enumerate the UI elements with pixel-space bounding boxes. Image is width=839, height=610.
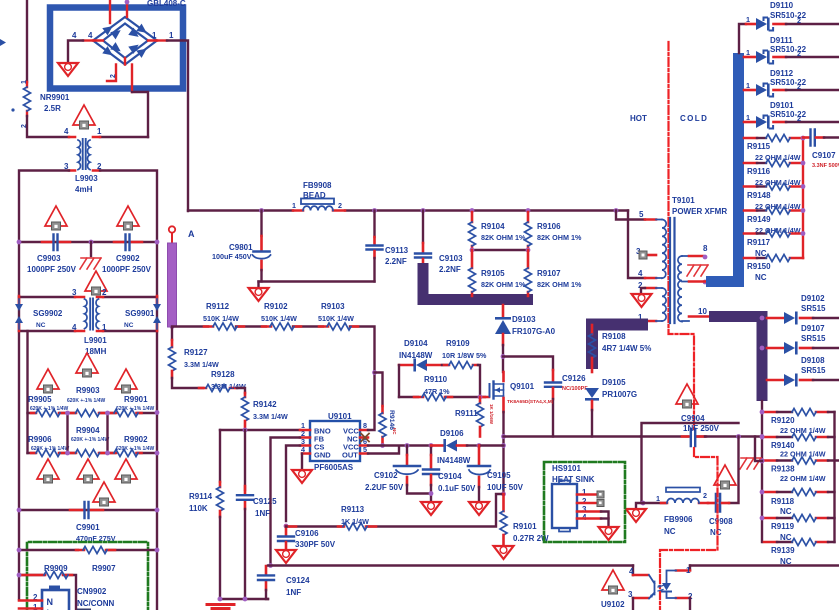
svg-text:C9902: C9902: [116, 254, 140, 263]
wire L9901 top row: [19, 296, 157, 298]
bridge bottom pin wires: [107, 65, 116, 82]
gate drive: D9104 row: [399, 339, 448, 372]
svg-text:SG9902: SG9902: [33, 309, 63, 318]
wire R9109 to gate node: [478, 365, 480, 397]
chassis at rail: [740, 458, 761, 469]
resistor R9105: [469, 250, 526, 296]
safety triangle lower right: [115, 459, 137, 483]
safety triangle above L9903: [73, 105, 95, 129]
svg-text:10R 1/8W 5%: 10R 1/8W 5%: [442, 351, 487, 360]
pin 10 lead: [689, 315, 709, 318]
junction at 528,250: [526, 248, 531, 253]
svg-text:1K 1/16W: 1K 1/16W: [489, 404, 494, 425]
junction at 503.5,436.5: [501, 434, 506, 439]
svg-text:IN4148W: IN4148W: [437, 456, 471, 465]
snubber bank R9117: [744, 230, 803, 258]
svg-text:1NF: 1NF: [286, 588, 301, 597]
svg-text:R9119: R9119: [771, 522, 795, 531]
svg-text:R9118: R9118: [771, 497, 795, 506]
svg-text:C9124: C9124: [286, 576, 310, 585]
resistor R9104: [469, 208, 526, 250]
bridge diode SE inner: [128, 41, 141, 54]
T9101 primary: [636, 210, 689, 323]
wire AC input left vertical: [26, 0, 28, 82]
svg-text:620K +-1% 1/4W: 620K +-1% 1/4W: [71, 437, 109, 443]
NC cross on pin 6: [361, 434, 369, 442]
junction dot A bar bottom: [170, 324, 175, 329]
svg-text:R9108: R9108: [602, 332, 626, 341]
svg-text:1: 1: [21, 80, 28, 84]
svg-text:R9907: R9907: [92, 564, 116, 573]
svg-text:SR510-22: SR510-22: [770, 78, 807, 87]
svg-text:R9127: R9127: [184, 348, 208, 357]
svg-text:82K OHM 1%: 82K OHM 1%: [481, 233, 526, 242]
bridge pin 4 lead: [83, 39, 93, 41]
wire L9903 pin1 row: [100, 136, 148, 138]
svg-text:HOT: HOT: [630, 114, 647, 123]
svg-text:COLD: COLD: [680, 114, 708, 123]
capacitor C9801 electrolytic: [212, 208, 271, 281]
primary winding lower: [662, 288, 666, 321]
capacitor C9107: [803, 130, 839, 170]
svg-text:C9903: C9903: [37, 254, 61, 263]
svg-text:R9104: R9104: [481, 222, 505, 231]
diode D9111: [744, 36, 839, 64]
wire left rail from L9903 pin3: [19, 171, 69, 600]
svg-text:1: 1: [656, 494, 660, 503]
primary winding upper: [656, 220, 662, 322]
svg-text:1: 1: [152, 31, 157, 40]
right rail lower bank: [833, 412, 835, 542]
junction at 261.5,210.5: [259, 208, 264, 213]
snubber bank right rail: [802, 138, 804, 258]
svg-text:HS9101: HS9101: [552, 464, 581, 473]
capacitor C9903: [27, 235, 77, 275]
svg-text:PF6005AS: PF6005AS: [314, 463, 354, 472]
safety triangle above C9902: [117, 206, 139, 230]
svg-text:SG9901: SG9901: [125, 309, 155, 318]
wire 620K row2: [28, 452, 158, 454]
svg-text:C9908: C9908: [709, 517, 733, 526]
isolation dash-dot lower: [660, 448, 718, 610]
svg-text:C9126: C9126: [562, 374, 586, 383]
svg-text:82K OHM 1%: 82K OHM 1%: [537, 233, 582, 242]
safety triangle above L9901: [85, 271, 107, 295]
svg-text:R9103: R9103: [321, 302, 345, 311]
chassis drop wire: [755, 437, 762, 462]
junction at 67.5,453: [65, 451, 70, 456]
svg-text:4: 4: [629, 567, 634, 576]
svg-text:C9801: C9801: [229, 243, 253, 252]
svg-text:R9138: R9138: [771, 465, 795, 474]
junction at 374.5,210.5: [372, 208, 377, 213]
svg-text:82K OHM 1%: 82K OHM 1%: [537, 280, 582, 289]
svg-text:R9139: R9139: [771, 546, 795, 555]
wire BNO row: [220, 429, 300, 431]
junction at 423,210.5: [421, 208, 426, 213]
green boundary box CN9902: [27, 542, 148, 610]
pin wires CN9902: [19, 599, 42, 602]
svg-text:2: 2: [110, 74, 117, 78]
capacitor C9106: [278, 526, 336, 549]
junction at 503.5,445.5: [501, 443, 506, 448]
capacitor C9124: [258, 566, 310, 599]
svg-text:620K +-1% 1/4W: 620K +-1% 1/4W: [31, 446, 69, 452]
svg-text:R9110: R9110: [424, 375, 448, 384]
bridge diode NW inner: [110, 26, 123, 39]
junction at 157,510: [155, 508, 160, 513]
junction at 374.5,372.5: [372, 370, 377, 375]
diode D9102: [767, 294, 839, 325]
safety triangle left: [37, 369, 59, 393]
junction dot Y-cap row left: [17, 240, 22, 245]
svg-text:NC/CONN: NC/CONN: [77, 599, 115, 608]
svg-text:D9108: D9108: [801, 356, 825, 365]
svg-text:OUT: OUT: [342, 451, 358, 460]
svg-text:D9105: D9105: [602, 378, 626, 387]
resistor R9902: [114, 450, 138, 457]
svg-text:NC: NC: [755, 249, 767, 258]
wire R9907 row: [19, 549, 157, 551]
junction at 762,318: [760, 316, 765, 321]
safety triangle lower mid: [77, 459, 99, 483]
svg-text:4: 4: [88, 31, 93, 40]
svg-text:8: 8: [703, 244, 708, 253]
svg-text:R9909: R9909: [44, 564, 68, 573]
junction at 762,348: [760, 346, 765, 351]
svg-text:R9117: R9117: [747, 238, 771, 247]
svg-text:A: A: [188, 229, 195, 239]
bridge pin 1 lead: [157, 39, 167, 41]
node A terminal ring: [169, 226, 175, 232]
svg-text:R9116: R9116: [747, 167, 771, 176]
bridge diamond inner: [103, 24, 148, 59]
snubber bank R9150: [744, 255, 803, 283]
svg-text:3.3M 1/4W: 3.3M 1/4W: [211, 382, 246, 391]
svg-text:4: 4: [72, 323, 77, 332]
junction at 705,282: [703, 280, 708, 285]
diode D9108: [767, 356, 839, 387]
svg-text:SR515: SR515: [801, 334, 826, 343]
resistor R9110: [422, 394, 446, 401]
diode D9112: [744, 69, 839, 97]
svg-text:1NF 250V: 1NF 250V: [683, 424, 720, 433]
snubber bank R9148: [744, 183, 803, 211]
pin4 GND wire + ground: [301, 454, 303, 469]
resistor R9108 over bar: [589, 325, 652, 372]
rail purple bar to R bank: [761, 401, 763, 412]
svg-text:SR515: SR515: [801, 304, 826, 313]
resistor R9907: [83, 547, 107, 554]
svg-text:2.2NF: 2.2NF: [385, 257, 407, 266]
svg-text:C9107: C9107: [812, 151, 836, 160]
junction at 431,493.5: [429, 491, 434, 496]
svg-text:8: 8: [363, 421, 367, 430]
resistor R9128: [206, 385, 230, 392]
Y-cap net wire: [641, 435, 705, 437]
svg-text:NC: NC: [780, 533, 792, 542]
junction at 19,575: [17, 573, 22, 578]
svg-text:NC: NC: [36, 322, 46, 329]
svg-text:1: 1: [169, 31, 174, 40]
chassis at secondary: [687, 265, 708, 276]
resistor R9114: [217, 487, 224, 511]
svg-text:R9150: R9150: [747, 262, 771, 271]
junction at 643,503: [641, 501, 646, 506]
C9908 right riser: [729, 437, 739, 504]
svg-text:620K +-1% 1/4W: 620K +-1% 1/4W: [67, 398, 105, 404]
svg-text:1: 1: [746, 113, 750, 122]
ground below C9104: [421, 502, 441, 515]
svg-text:Q9101: Q9101: [510, 382, 535, 391]
svg-text:NC: NC: [780, 507, 792, 516]
svg-text:1: 1: [292, 201, 296, 210]
resistor R9107: [525, 250, 582, 296]
svg-text:R9113: R9113: [341, 505, 365, 514]
svg-text:C9125: C9125: [253, 497, 277, 506]
capacitor C9126: [545, 370, 588, 437]
wire D9104 left vertical: [398, 365, 400, 397]
diode D9103: [495, 305, 556, 345]
wire A bar to R9127: [171, 327, 173, 340]
bridge diode SW inner: [110, 42, 123, 55]
diode D9105: [585, 378, 637, 437]
svg-text:C9106: C9106: [295, 529, 319, 538]
ground: [626, 509, 646, 522]
safety triangle lower left: [37, 459, 59, 483]
bridge diode NE inner: [128, 28, 141, 41]
svg-text:3.3M 1/4W: 3.3M 1/4W: [253, 412, 288, 421]
common mode choke L9903: [64, 127, 102, 194]
svg-text:2.5R: 2.5R: [44, 104, 61, 113]
wire L9901 bottom row: [19, 330, 157, 332]
junction at 107.5,453: [105, 451, 110, 456]
ground below R9101: [494, 546, 514, 559]
resistor R9127 vertical: [169, 347, 176, 371]
junction at 762,461: [760, 459, 765, 464]
resistor R9119: [764, 515, 835, 543]
ground heat sink: [599, 527, 619, 540]
svg-text:D9107: D9107: [801, 324, 825, 333]
HV bus wire: [188, 209, 628, 211]
svg-text:2: 2: [797, 82, 801, 91]
ground left of FB9906: [636, 503, 643, 508]
wire bus corner to pin4: [628, 211, 645, 279]
svg-text:510K 1/4W: 510K 1/4W: [203, 314, 239, 323]
secondary winding: [678, 256, 682, 322]
VCC/OUT net: [368, 446, 431, 454]
svg-text:4: 4: [638, 269, 643, 278]
resistor R9901: [114, 410, 138, 417]
wire Y-cap row: [19, 241, 157, 243]
R9113 row: [286, 494, 504, 530]
svg-text:D9106: D9106: [440, 429, 464, 438]
capacitor C9104: [423, 443, 476, 501]
capacitor C9901: [70, 502, 116, 543]
wire bridge pin1 to right vertical: [167, 41, 188, 212]
svg-text:2: 2: [797, 49, 801, 58]
bridge diode NW: [102, 22, 115, 35]
svg-text:C9901: C9901: [76, 523, 100, 532]
safety triangle above C9904: [676, 384, 698, 408]
resistor R9138: [764, 457, 839, 483]
junction at 220,599: [218, 597, 223, 602]
capacitor C9902: [102, 235, 152, 275]
svg-text:1000PF 250V: 1000PF 250V: [27, 265, 77, 274]
svg-text:D9111: D9111: [770, 36, 793, 45]
pin 8 lead: [689, 255, 703, 258]
svg-text:1: 1: [746, 48, 750, 57]
svg-text:C9103: C9103: [439, 254, 463, 263]
bottom rail left: [219, 598, 268, 600]
spark gap SG9902: [15, 296, 63, 331]
junction at 738.5,436.5: [736, 434, 741, 439]
svg-text:FR107G-A0: FR107G-A0: [512, 327, 556, 336]
svg-text:1: 1: [102, 323, 107, 332]
svg-text:C9104: C9104: [438, 472, 462, 481]
junction at 762,460.5: [760, 458, 765, 463]
svg-text:4mH: 4mH: [75, 185, 93, 194]
wire 510K row: [172, 327, 375, 373]
junction at 528,210.5: [526, 208, 531, 213]
safety triangle row mid upper: [76, 353, 98, 377]
svg-text:4: 4: [64, 127, 69, 136]
secondary mid tap lead: [689, 280, 706, 283]
resistor NR9901: [21, 80, 70, 128]
svg-text:1K 1/4W: 1K 1/4W: [341, 517, 369, 526]
svg-text:R9128: R9128: [211, 370, 235, 379]
stub to chassis: [90, 242, 92, 256]
U9102 pin wires down: [633, 598, 690, 610]
capacitor C9904: [681, 414, 720, 446]
junction at 803,163: [801, 161, 806, 166]
svg-text:510K 1/4W: 510K 1/4W: [318, 314, 354, 323]
svg-text:T9101: T9101: [672, 196, 695, 205]
thick blue bar secondary top: [706, 53, 739, 282]
svg-text:620K +-1% 1/4W: 620K +-1% 1/4W: [116, 406, 154, 412]
common mode choke L9901: [72, 288, 107, 356]
junction dot Y-cap row right: [155, 240, 160, 245]
ground below C9106: [276, 550, 296, 563]
CS pin3 wire: [286, 446, 300, 522]
junction at 503.5,494: [501, 492, 506, 497]
pin8 VCC wire up: [368, 373, 375, 431]
diode D9110: [746, 1, 839, 31]
svg-text:2.2NF: 2.2NF: [439, 265, 461, 274]
ground at bridge: [58, 63, 78, 76]
junction at 245,430: [243, 428, 248, 433]
svg-text:C9113: C9113: [385, 246, 409, 255]
wire R9104-R9105 mid row: [472, 249, 528, 251]
R9110 row wire: [399, 396, 485, 398]
core bars: [670, 218, 675, 323]
diode D9107: [767, 324, 839, 355]
svg-text:22 OHM 1/4W: 22 OHM 1/4W: [755, 153, 801, 162]
resistor R9903: [76, 410, 100, 417]
svg-text:NC: NC: [664, 527, 676, 536]
wire C9901 row: [19, 509, 157, 511]
svg-text:PR1007G: PR1007G: [602, 390, 637, 399]
junction at 382.5,445.5: [380, 443, 385, 448]
wire R9909 row: [19, 575, 76, 610]
wire D9103 to Q9101 drain: [502, 345, 504, 372]
svg-text:4R7 1/4W 5%: 4R7 1/4W 5%: [602, 344, 651, 353]
junction at 762,437: [760, 435, 765, 440]
svg-text:82K OHM 1%: 82K OHM 1%: [481, 280, 526, 289]
svg-text:NC: NC: [392, 428, 397, 435]
FB pin2 wire: [271, 438, 301, 566]
svg-text:R9102: R9102: [264, 302, 288, 311]
resistor R9109: [442, 339, 487, 369]
svg-text:SR510-22: SR510-22: [770, 110, 807, 119]
svg-text:R9101: R9101: [513, 522, 537, 531]
safety triangle at U9102: [602, 570, 624, 594]
svg-text:GND: GND: [314, 451, 331, 460]
svg-text:5: 5: [639, 210, 644, 219]
pin3 stub + NC square: [646, 254, 656, 257]
wire bus to pin5: [614, 208, 619, 213]
svg-text:1NF: 1NF: [255, 509, 270, 518]
svg-text:L9903: L9903: [75, 174, 98, 183]
thick purple bar secondary lower: [709, 317, 762, 402]
wire Q9101 source down: [502, 412, 504, 494]
svg-text:R9149: R9149: [747, 215, 771, 224]
svg-text:1: 1: [746, 15, 750, 24]
svg-text:NC/100PF: NC/100PF: [562, 386, 588, 392]
svg-text:R9109: R9109: [446, 339, 470, 348]
wire R9128 to R9142: [237, 388, 245, 393]
ground below C9105: [469, 502, 489, 515]
junction at 107.5,413: [105, 411, 110, 416]
svg-text:620K +-1% 1/4W: 620K +-1% 1/4W: [116, 446, 154, 452]
resistor R9139: [764, 539, 835, 567]
ground below C9801: [249, 288, 269, 301]
junction at 803,210.5: [801, 208, 806, 213]
svg-text:D9102: D9102: [801, 294, 825, 303]
ground: [292, 470, 312, 483]
source node wire to right: [504, 435, 642, 437]
junction at 480,397: [478, 395, 483, 400]
svg-text:R9142: R9142: [253, 400, 277, 409]
resistor R9101: [500, 494, 549, 545]
svg-text:FB9908: FB9908: [303, 181, 332, 190]
chassis ground EMI: [80, 258, 101, 269]
safety triangle above C9908: [714, 465, 736, 489]
junction at 270.5,565.5: [268, 563, 273, 568]
wire NR9901 to L9903: [27, 116, 69, 137]
junction at 479,445.5: [477, 443, 482, 448]
ground at T9101 pin2: [632, 294, 652, 307]
svg-text:N: N: [47, 597, 54, 607]
svg-text:100uF 450V: 100uF 450V: [212, 252, 252, 261]
resistor R9909: [44, 572, 68, 579]
wire bridge output bottom: [132, 92, 148, 137]
FB net vertical: [642, 423, 739, 503]
junction at 19,510: [17, 508, 22, 513]
wire R9127 to R9128: [172, 378, 203, 388]
snubber bank R9149: [744, 207, 803, 235]
IC U9101 box: [300, 412, 369, 472]
fusible bar node A: [168, 243, 177, 327]
svg-text:R9112: R9112: [206, 302, 230, 311]
svg-text:SR515: SR515: [801, 366, 826, 375]
svg-text:R9115: R9115: [747, 142, 771, 151]
svg-text:R9902: R9902: [124, 435, 148, 444]
junction at 157,550: [155, 548, 160, 553]
R9146 jog + resistor vertical: [375, 373, 383, 407]
svg-text:C9904: C9904: [681, 414, 705, 423]
svg-text:U9101: U9101: [328, 412, 352, 421]
